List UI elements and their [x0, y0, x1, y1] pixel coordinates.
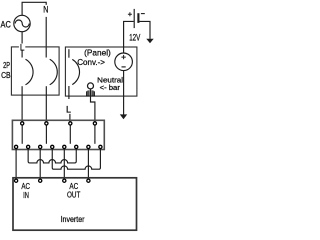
- svg-text:Inverter: Inverter: [61, 215, 85, 224]
- inverter pin AC OUT N: [87, 179, 90, 182]
- strip terminal dots top row: [21, 122, 97, 125]
- svg-text:OUT: OUT: [67, 190, 80, 199]
- terminal node T2: [45, 122, 48, 125]
- converter U1 circle: [115, 53, 133, 71]
- wire battery minus to corner and down: [140, 21, 151, 39]
- terminal strip box: [12, 120, 104, 149]
- connection arrow from converter to battery: [120, 114, 127, 119]
- strip internal stub 3: [69, 125, 71, 144]
- wire converter minus down: [123, 71, 125, 115]
- svg-text:2P: 2P: [3, 60, 10, 70]
- wire from AC source top over to N line: [22, 2, 46, 15]
- breaker pole 1 bottom stub wire to strip T1: [21, 86, 23, 123]
- strip internal stub 1: [21, 125, 23, 144]
- inverter terminal dots: [15, 179, 91, 182]
- wire N below label into breaker pole 2: [45, 17, 47, 58]
- strip internal stub 2: [45, 125, 47, 144]
- terminal node B3: [39, 145, 42, 148]
- terminal node B5: [63, 145, 66, 148]
- terminal node B2: [27, 145, 30, 148]
- svg-text:<- bar: <- bar: [100, 83, 121, 92]
- inverter pin AC IN L: [15, 179, 18, 182]
- svg-text:L: L: [66, 104, 71, 114]
- breaker pole 1 arc: [26, 59, 34, 85]
- AC source sine wave: [15, 20, 29, 27]
- terminal node B4: [51, 145, 54, 148]
- svg-text:AC: AC: [1, 19, 12, 29]
- wire L resuming below label to strip T3: [69, 114, 71, 124]
- battery minus label mark: [141, 13, 145, 15]
- neutral bar icon circle: [88, 83, 94, 89]
- battery BT1 short plate: [137, 13, 139, 23]
- terminal node B1: [15, 145, 18, 148]
- converter plus mark: [121, 55, 125, 59]
- terminal node B6: [75, 145, 78, 148]
- svg-text:L: L: [20, 42, 25, 52]
- wire strip B5 to inverter AC OUT L: [63, 148, 65, 181]
- svg-text:Conv.->: Conv.->: [77, 57, 105, 67]
- jumper wire strip B2 to B6 with hops: [28, 148, 76, 163]
- 2P CB breaker box: [11, 47, 59, 95]
- battery plus label mark: [128, 12, 132, 16]
- terminal node T1: [21, 122, 24, 125]
- neutral wire from bar icon with jog to strip T4: [91, 89, 95, 124]
- strip internal stub 4: [94, 125, 96, 144]
- terminal node B8: [99, 145, 102, 148]
- panel box: [65, 47, 136, 96]
- svg-text:12V: 12V: [129, 32, 140, 42]
- terminal node T4: [93, 122, 96, 125]
- wire strip B3 to inverter AC IN N: [39, 148, 41, 181]
- terminal node T3: [69, 122, 72, 125]
- wire strip B7 to inverter AC OUT N: [87, 148, 89, 181]
- neutral bar icon strands: [87, 90, 95, 96]
- breaker pole 2 arc: [50, 59, 58, 85]
- panel breaker bottom stub exiting box: [68, 86, 70, 99]
- jumper wire strip B4 to B8 with hops: [52, 148, 100, 169]
- label L at breaker with knockout: [19, 44, 25, 51]
- svg-text:IN: IN: [23, 191, 29, 200]
- inverter box: [13, 178, 137, 230]
- inverter pin AC OUT L: [63, 179, 66, 182]
- strip terminal dots bottom row: [15, 145, 103, 148]
- label N with wire knockout: [43, 5, 51, 16]
- panel breaker top stub: [68, 49, 70, 58]
- panel breaker arc: [72, 59, 79, 84]
- svg-text:N: N: [43, 4, 48, 14]
- svg-text:AC: AC: [21, 182, 30, 191]
- svg-text:CB: CB: [1, 70, 11, 80]
- wire L from AC source bottom into breaker pole 1: [21, 32, 23, 58]
- connection arrow to battery negative: [146, 39, 153, 44]
- AC source V1 circle: [14, 15, 30, 31]
- wire converter plus up to battery: [124, 21, 134, 53]
- converter minus mark: [122, 66, 126, 68]
- inverter pin AC IN N: [39, 179, 42, 182]
- breaker pole 2 bottom stub wire to strip T2: [45, 86, 47, 123]
- wire strip B1 to inverter AC IN L: [15, 148, 17, 181]
- terminal node B7: [87, 145, 90, 148]
- battery BT1 long plate: [133, 9, 135, 28]
